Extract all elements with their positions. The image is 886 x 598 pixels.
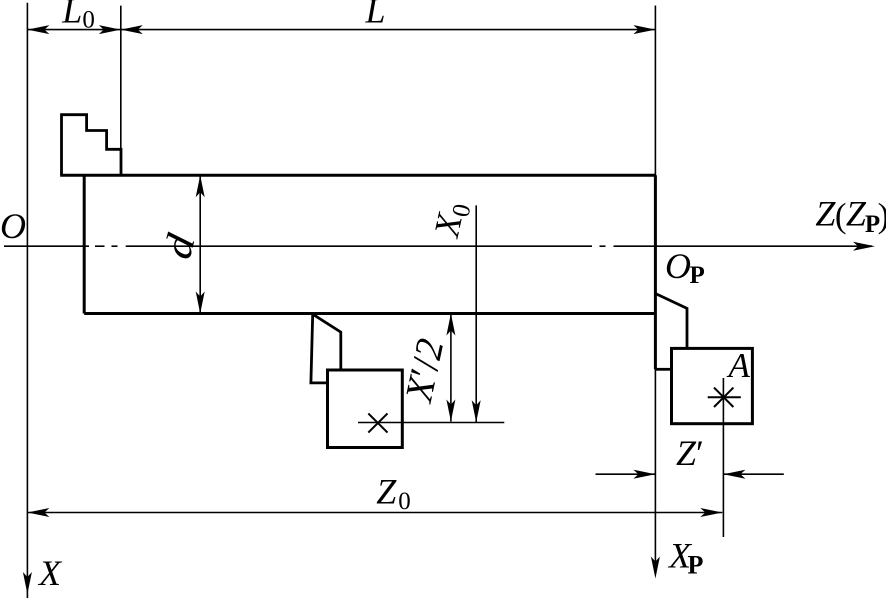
- workpiece right edge (continues down to right tool notch): [654, 175, 657, 369]
- dimension X0 line (single arrow down): [475, 205, 477, 422]
- chuck jaw (stepped): [62, 115, 122, 176]
- dimension L line: [121, 29, 656, 31]
- right tool notch line: [656, 368, 672, 371]
- X axis arrowhead (down): [23, 572, 32, 594]
- svg-text:): ): [878, 196, 886, 235]
- workpiece top edge: [60, 174, 655, 177]
- middle tool reference point (x cross): [368, 413, 387, 432]
- right tool (at point A): [656, 294, 687, 349]
- middle tool (turning tool at X'/2): [313, 314, 341, 370]
- dimension L0 line: [27, 29, 120, 31]
- right tool reference point A (asterisk): [708, 396, 741, 398]
- label Z(Zp): [815, 193, 886, 238]
- svg-text:O: O: [0, 206, 26, 246]
- svg-text:L: L: [365, 0, 386, 30]
- extension line at chuck face (x=120.8): [120, 6, 122, 150]
- extension line at machine origin (x=27.4) / X axis line: [26, 3, 28, 598]
- extension line through tool point A (x=723.4): [722, 378, 724, 537]
- Z axis arrowhead (right): [853, 242, 875, 251]
- right tool holder square: [672, 348, 753, 423]
- workpiece left edge: [83, 175, 86, 313]
- dimension Z' (arrows outside): [596, 473, 656, 475]
- Z axis / centerline (dash-dot): [4, 245, 872, 247]
- dimension d (workpiece diameter) double arrow: [199, 175, 201, 313]
- svg-text:(: (: [835, 196, 847, 235]
- svg-text:A: A: [727, 346, 751, 385]
- svg-text:Z: Z: [846, 193, 867, 233]
- svg-text:Z: Z: [815, 193, 836, 233]
- Xp axis arrowhead (down): [651, 557, 660, 579]
- middle tool holder square: [328, 370, 403, 448]
- extension line at workpiece right end (x=655.4) / Xp axis: [654, 6, 656, 574]
- workpiece bottom edge: [84, 312, 655, 315]
- dimension Z0 line: [27, 512, 722, 514]
- svg-text:X: X: [37, 553, 63, 593]
- svg-text:Z′: Z′: [676, 433, 704, 473]
- dimension X'/2 double arrow: [450, 314, 452, 422]
- horizontal line through middle tool point: [358, 422, 504, 424]
